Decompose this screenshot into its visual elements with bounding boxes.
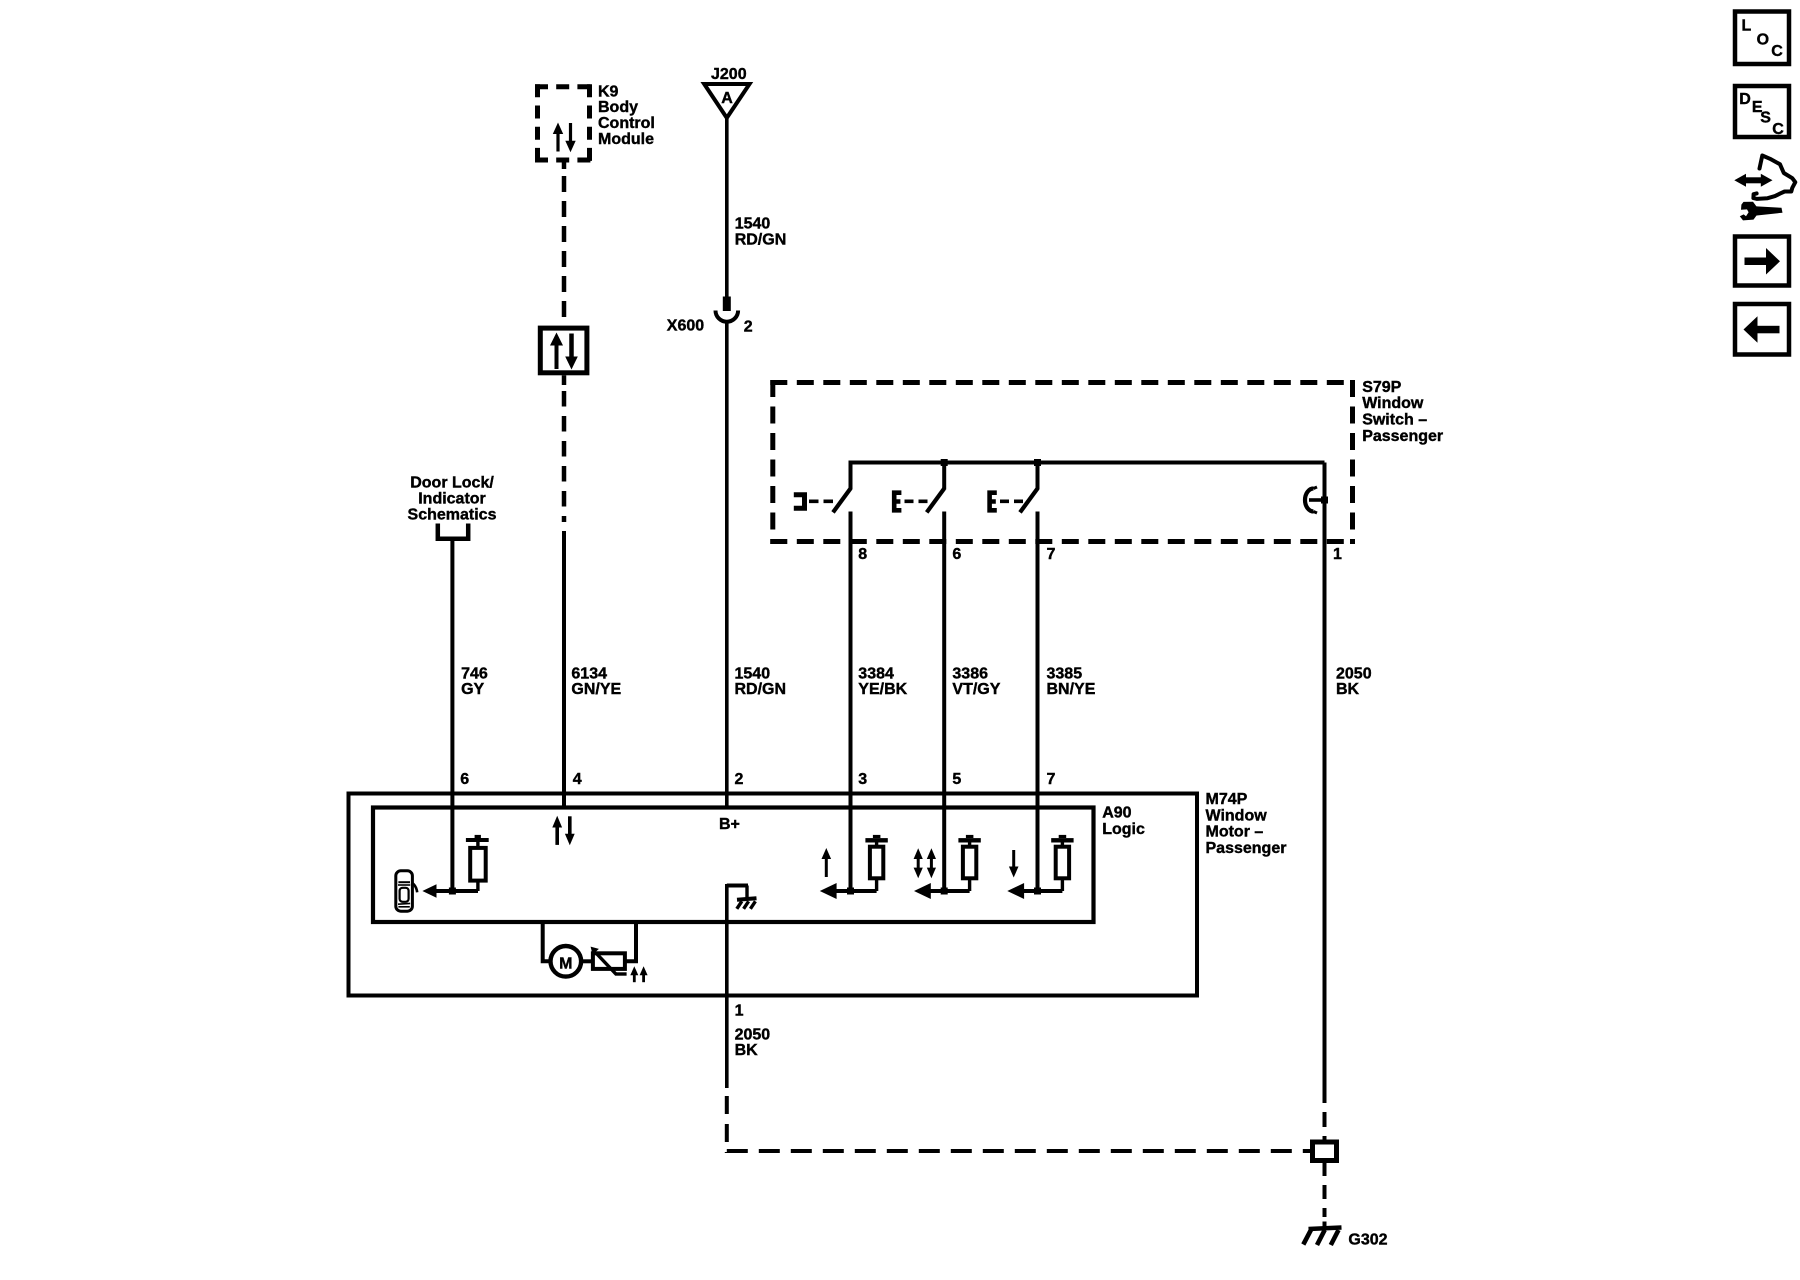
motor branch right wire — [625, 921, 636, 961]
inline connector to ground — [1313, 1142, 1337, 1161]
svg-text:GY: GY — [461, 681, 484, 698]
wire 2050 dashed vertical below module — [725, 1096, 729, 1153]
wire dashed segment below inline connector — [1323, 1162, 1327, 1217]
mechanical linkage dashes pin 6 switch — [905, 499, 931, 503]
svg-text:Indicator: Indicator — [418, 490, 486, 507]
wire 6134 dashed segment from K9 to window symbol — [562, 160, 567, 326]
junction on bus at switch 6 — [941, 459, 948, 466]
detent bracket for pin 7 switch — [990, 493, 997, 511]
svg-text:A: A — [721, 90, 733, 107]
icon DESC button box — [1735, 86, 1789, 138]
switch wiper feed symbol at pin 1 — [1305, 487, 1328, 513]
icon previous-page arrow button — [1735, 304, 1789, 355]
icon wrench — [1740, 202, 1783, 221]
svg-text:X600: X600 — [667, 318, 704, 335]
svg-text:6: 6 — [952, 546, 961, 563]
svg-text:D: D — [1739, 91, 1751, 108]
express up/down window symbol box — [540, 328, 587, 373]
arrow output pin 5 branch — [914, 883, 970, 899]
motor M — [551, 946, 582, 977]
svg-text:J200: J200 — [711, 66, 747, 83]
junction on bus at switch 7 — [1034, 459, 1041, 466]
svg-text:6134: 6134 — [571, 666, 607, 683]
M74P label — [1206, 791, 1287, 857]
svg-text:7: 7 — [1047, 771, 1056, 788]
wire label 3386 VT/GY — [952, 666, 1000, 699]
svg-text:2: 2 — [735, 771, 744, 788]
connector X600 male terminal — [723, 297, 731, 312]
svg-text:RD/GN: RD/GN — [735, 681, 787, 698]
svg-text:Control: Control — [598, 115, 655, 132]
wire 1540 from X600 to pin 2 — [725, 323, 729, 808]
wire 2050 from switch pin 1 down right side — [1323, 463, 1327, 1089]
svg-text:Door Lock/: Door Lock/ — [410, 475, 494, 492]
window up arrow symbol — [822, 848, 832, 877]
wire label 2050 BK right — [1336, 666, 1372, 699]
svg-text:Motor –: Motor – — [1206, 824, 1264, 841]
svg-text:Module: Module — [598, 131, 654, 148]
svg-text:S: S — [1760, 109, 1771, 126]
svg-text:RD/GN: RD/GN — [735, 231, 787, 248]
arrow output pin 3 branch — [820, 883, 877, 899]
svg-text:Logic: Logic — [1102, 821, 1145, 838]
resistor pin 5 branch — [958, 835, 980, 891]
wire label 1540 RD/GN upper — [735, 216, 787, 249]
K9 window up/down arrows symbol — [553, 123, 576, 153]
internal chassis ground symbol — [737, 898, 757, 909]
svg-text:4: 4 — [573, 771, 582, 788]
S79P label — [1362, 379, 1443, 445]
window down arrow symbol — [1009, 850, 1019, 878]
arrow to car icon — [422, 884, 478, 898]
svg-text:L: L — [1742, 18, 1752, 35]
A90 logic inner box — [373, 808, 1094, 923]
K9 label — [598, 83, 655, 148]
ground G302 symbol — [1303, 1222, 1341, 1246]
car icon (vehicle status output) — [396, 871, 417, 911]
off-page bracket for door lock schematics — [438, 524, 468, 539]
module K9 Body Control Module dashed box — [535, 84, 592, 162]
wire 6134 dashed segment below window symbol — [562, 375, 567, 522]
switch blade pin 6 (express contact) — [927, 461, 945, 513]
wire label 3384 YE/BK — [858, 666, 907, 699]
wire label 6134 GN/YE — [571, 666, 621, 699]
svg-text:8: 8 — [858, 546, 867, 563]
internal ground wire L-turn — [727, 886, 748, 900]
svg-text:1: 1 — [735, 1003, 744, 1020]
svg-text:VT/GY: VT/GY — [952, 681, 1000, 698]
svg-text:Switch –: Switch – — [1362, 412, 1427, 429]
svg-text:GN/YE: GN/YE — [571, 681, 621, 698]
motor branch left wire — [543, 921, 551, 961]
detent bracket for pin 8 switch — [794, 495, 805, 509]
svg-text:5: 5 — [952, 771, 961, 788]
svg-text:Window: Window — [1362, 395, 1424, 412]
A90 Logic label — [1102, 805, 1145, 838]
svg-text:Passenger: Passenger — [1362, 428, 1443, 445]
connector X600 female cup — [716, 311, 739, 322]
svg-text:Passenger: Passenger — [1206, 840, 1287, 857]
wire 2050 pin 1 from ground net down — [725, 884, 729, 1088]
wire from switch 8 contact to module pin 3 — [849, 512, 853, 892]
icon LOC button box — [1735, 12, 1789, 65]
svg-text:C: C — [1772, 121, 1784, 138]
switch S79P dashed box — [770, 380, 1355, 544]
svg-text:BK: BK — [1336, 681, 1360, 698]
icon hand with double arrow — [1734, 156, 1795, 199]
wire 1540 from J200 to X600 — [725, 118, 729, 297]
icon next-page arrow button — [1735, 237, 1789, 286]
svg-text:BK: BK — [735, 1042, 759, 1059]
mechanical linkage dashes pin 8 switch — [809, 499, 837, 503]
wire 2050 dashed bottom run — [727, 1149, 1311, 1153]
svg-text:K9: K9 — [598, 83, 619, 100]
mechanical linkage dashes pin 7 switch — [1000, 499, 1024, 503]
switch blade pin 8 (window up contact) — [833, 461, 851, 513]
svg-text:1: 1 — [1333, 546, 1342, 563]
svg-text:3385: 3385 — [1047, 666, 1083, 683]
wire label 1540 RD/GN lower — [735, 666, 787, 699]
wire 2050 dashed segment above inline connector — [1323, 1088, 1327, 1140]
PTC thermistor — [591, 947, 627, 975]
svg-text:G302: G302 — [1348, 1231, 1387, 1248]
junction at pin 5 branch — [941, 888, 948, 895]
svg-text:BN/YE: BN/YE — [1047, 681, 1096, 698]
svg-text:Body: Body — [598, 99, 638, 116]
wire label 746 GY — [461, 666, 488, 699]
switch blade pin 7 (window down contact) — [1020, 461, 1038, 513]
svg-text:6: 6 — [460, 771, 469, 788]
wire from switch 6 contact to module pin 5 — [942, 512, 946, 892]
junction at pin 6 wire and car branch — [449, 888, 456, 895]
svg-text:M: M — [559, 955, 572, 972]
connector J200 triangle A — [704, 84, 749, 118]
wire motor to thermistor — [581, 959, 594, 963]
wire label 3385 BN/YE — [1047, 666, 1096, 699]
switch common bus wire — [851, 461, 1325, 465]
resistor pin 3 branch — [865, 835, 887, 891]
resistor in car branch — [466, 835, 489, 891]
wire label 2050 BK bottom — [735, 1026, 771, 1059]
svg-text:7: 7 — [1047, 546, 1056, 563]
svg-text:YE/BK: YE/BK — [858, 681, 907, 698]
svg-text:2: 2 — [744, 319, 753, 336]
junction at pin 3 branch — [847, 888, 854, 895]
svg-text:O: O — [1757, 32, 1769, 49]
svg-text:M74P: M74P — [1206, 791, 1248, 808]
svg-text:2050: 2050 — [735, 1026, 771, 1043]
motor M74P outer box — [349, 794, 1198, 996]
svg-text:Schematics: Schematics — [408, 506, 497, 523]
svg-text:3: 3 — [858, 771, 867, 788]
svg-text:A90: A90 — [1102, 805, 1131, 822]
svg-text:2050: 2050 — [1336, 666, 1372, 683]
svg-text:1540: 1540 — [735, 666, 771, 683]
svg-text:B+: B+ — [719, 816, 740, 833]
Door Lock/Indicator Schematics label — [408, 475, 497, 524]
svg-text:746: 746 — [461, 666, 488, 683]
wire from switch 7 contact to module pin 7 — [1036, 512, 1040, 892]
window up/down double arrows symbol — [914, 848, 936, 878]
svg-text:S79P: S79P — [1362, 379, 1401, 396]
svg-text:3386: 3386 — [952, 666, 988, 683]
wire 6134 solid segment to pin 4 — [562, 531, 566, 808]
arrow output pin 7 branch — [1007, 883, 1062, 899]
junction at pin 7 branch — [1034, 888, 1041, 895]
wire 746 from bracket to pin 6 and into module — [450, 539, 454, 891]
svg-text:1540: 1540 — [735, 216, 771, 233]
A90 up/down arrows at pin 4 input — [552, 816, 574, 846]
svg-text:C: C — [1771, 43, 1783, 60]
thermistor up arrows — [630, 966, 647, 982]
svg-text:Window: Window — [1206, 807, 1268, 824]
detent bracket for pin 6 switch — [894, 493, 901, 511]
resistor pin 7 branch — [1051, 835, 1073, 891]
svg-text:3384: 3384 — [858, 666, 894, 683]
